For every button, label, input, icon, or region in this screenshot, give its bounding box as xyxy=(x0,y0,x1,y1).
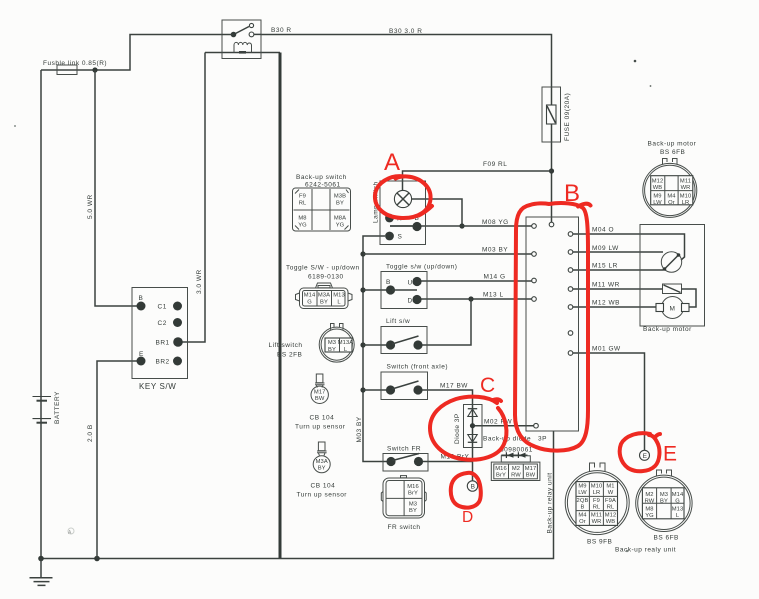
svg-text:Switch FR: Switch FR xyxy=(387,446,421,453)
svg-text:BW: BW xyxy=(526,473,536,479)
svg-text:B: B xyxy=(386,279,391,286)
wire left battery vertical xyxy=(40,70,42,559)
wire M09 LW xyxy=(573,251,663,253)
svg-text:RW: RW xyxy=(511,473,521,479)
svg-text:BY: BY xyxy=(409,508,417,514)
svg-text:B: B xyxy=(471,484,476,491)
svg-text:M1: M1 xyxy=(606,484,614,490)
svg-text:6242-5061: 6242-5061 xyxy=(305,182,341,189)
svg-text:C1: C1 xyxy=(158,304,167,311)
svg-text:LW: LW xyxy=(578,490,587,496)
lift s/w box xyxy=(381,327,427,354)
svg-text:M08 YG: M08 YG xyxy=(482,219,509,226)
svg-text:RL: RL xyxy=(593,505,601,511)
svg-text:YG: YG xyxy=(336,223,345,229)
wire bottom ground bus / unit box bottom xyxy=(41,431,554,559)
svg-text:5.0 WR: 5.0 WR xyxy=(87,194,94,219)
svg-text:M10: M10 xyxy=(680,194,692,200)
svg-text:B30 R: B30 R xyxy=(271,27,292,34)
svg-text:FUSE 09(20A): FUSE 09(20A) xyxy=(564,93,571,141)
svg-text:B30 3.0 R: B30 3.0 R xyxy=(389,28,422,35)
svg-text:M2: M2 xyxy=(512,466,520,472)
resistor xyxy=(663,284,682,294)
svg-text:Back-up motor: Back-up motor xyxy=(643,326,692,333)
svg-text:M01 GW: M01 GW xyxy=(592,346,621,353)
toggle s/w box xyxy=(381,272,427,309)
wire M15 LR xyxy=(573,269,664,271)
svg-text:LW: LW xyxy=(653,200,662,206)
svg-text:2.0 B: 2.0 B xyxy=(87,424,94,442)
svg-text:RL: RL xyxy=(299,201,307,207)
svg-text:FR switch: FR switch xyxy=(388,524,421,531)
svg-text:M17 BW: M17 BW xyxy=(440,383,468,390)
svg-text:Lift switch: Lift switch xyxy=(269,342,303,349)
svg-text:RW: RW xyxy=(645,499,655,505)
wire F09 RL to lamp xyxy=(403,171,552,191)
svg-text:BY: BY xyxy=(320,300,328,306)
label M3A BY sensor xyxy=(316,459,328,472)
svg-text:M13: M13 xyxy=(672,507,684,513)
connector lift switch BS 2FB xyxy=(319,324,354,363)
label BS6FB top cells xyxy=(652,179,692,207)
svg-text:M04 O: M04 O xyxy=(592,227,614,234)
label BS 6FB bottom cells xyxy=(645,492,684,519)
connector BS 6FB top (back-up motor) xyxy=(643,159,697,218)
svg-text:Diode 3P: Diode 3P xyxy=(454,413,461,444)
motor M xyxy=(662,297,684,319)
KEY S/W xyxy=(132,288,188,379)
svg-text:M3: M3 xyxy=(409,502,417,508)
node junction ground left xyxy=(38,556,44,562)
speck stamp xyxy=(68,528,74,536)
svg-text:M03 BY: M03 BY xyxy=(482,247,508,254)
label diode 3P cells xyxy=(495,466,536,479)
svg-text:BR2: BR2 xyxy=(156,359,170,366)
svg-text:M8: M8 xyxy=(645,507,653,513)
node junction toggle B xyxy=(360,287,365,292)
node junction F09 RL xyxy=(549,168,554,173)
connector BS 9FB xyxy=(565,463,629,535)
label BS2FB cells xyxy=(328,340,353,353)
connector toggle 6189-0130 xyxy=(296,283,353,309)
svg-text:F9A: F9A xyxy=(605,498,616,504)
sensor M17 BW (CB 104) xyxy=(311,374,328,403)
svg-text:B: B xyxy=(139,295,144,302)
svg-text:M9: M9 xyxy=(578,484,586,490)
wire lift s/w output riser xyxy=(422,299,471,345)
svg-text:Back-up switch: Back-up switch xyxy=(296,174,347,181)
svg-text:C: C xyxy=(480,374,495,397)
svg-text:E: E xyxy=(643,453,648,460)
svg-text:M17: M17 xyxy=(525,466,537,472)
wire toggle B stub xyxy=(363,289,386,291)
svg-text:M14: M14 xyxy=(672,492,684,498)
svg-text:S: S xyxy=(398,234,403,241)
svg-text:A: A xyxy=(68,530,72,536)
wire 3.0 WR to KEY S/W BR1 xyxy=(182,53,205,343)
svg-text:BR1: BR1 xyxy=(156,340,170,347)
switch FR box xyxy=(383,454,428,472)
svg-text:CB 104: CB 104 xyxy=(311,483,336,490)
label toggle connector cells xyxy=(304,293,345,306)
svg-text:M03 BY: M03 BY xyxy=(356,416,363,442)
label M17 BW sensor xyxy=(314,390,326,403)
label BS 9FB cells xyxy=(577,484,617,526)
svg-text:LR: LR xyxy=(593,490,601,496)
svg-text:BW: BW xyxy=(315,396,325,402)
wire thick main return xyxy=(279,53,282,559)
svg-text:BY: BY xyxy=(328,347,336,353)
svg-text:M13 L: M13 L xyxy=(483,292,504,299)
wire M17 BW to diode xyxy=(422,390,473,405)
connector BS 6FB bottom xyxy=(636,470,692,532)
red annotation D loop xyxy=(451,473,481,508)
svg-text:A: A xyxy=(384,149,400,176)
svg-text:Or: Or xyxy=(668,200,675,206)
svg-text:Fusble link 0.85(R): Fusble link 0.85(R) xyxy=(43,60,107,67)
svg-text:LR: LR xyxy=(682,200,690,206)
svg-text:Or: Or xyxy=(579,519,586,525)
connector FR switch xyxy=(381,476,426,518)
svg-text:L: L xyxy=(337,300,341,306)
fusible link FL xyxy=(57,65,77,75)
svg-text:M3: M3 xyxy=(328,340,336,346)
svg-text:M17: M17 xyxy=(314,390,326,396)
svg-text:M3B: M3B xyxy=(334,194,346,200)
svg-text:Toggle s/w (up/down): Toggle s/w (up/down) xyxy=(386,264,457,271)
wire M14 G xyxy=(421,280,532,283)
svg-text:M14 G: M14 G xyxy=(484,274,506,281)
svg-text:Toggle S/W - up/down: Toggle S/W - up/down xyxy=(286,265,360,272)
svg-text:B: B xyxy=(581,505,585,511)
svg-text:M3: M3 xyxy=(660,492,668,498)
svg-text:E: E xyxy=(663,443,677,466)
connector back-up switch 6242-5061 xyxy=(293,188,351,231)
svg-text:YG: YG xyxy=(298,223,307,229)
svg-text:M2: M2 xyxy=(645,492,653,498)
svg-text:KEY S/W: KEY S/W xyxy=(139,382,176,391)
svg-text:BrY: BrY xyxy=(408,491,418,497)
svg-text:M9: M9 xyxy=(653,194,661,200)
svg-text:Switch (front axle): Switch (front axle) xyxy=(387,364,449,371)
wire M16 BrY xyxy=(423,461,473,463)
svg-text:M09 LW: M09 LW xyxy=(592,245,619,252)
svg-text:RL: RL xyxy=(607,505,615,511)
svg-text:BY: BY xyxy=(318,466,326,472)
svg-text:M16: M16 xyxy=(407,484,419,490)
svg-text:3.0 WR: 3.0 WR xyxy=(196,269,203,294)
svg-text:BS 6FB: BS 6FB xyxy=(654,535,679,542)
red annotation B loop xyxy=(515,203,591,451)
wire front axle stub xyxy=(363,389,386,391)
speck 3 xyxy=(14,125,16,127)
svg-text:BS 2FB: BS 2FB xyxy=(277,352,302,359)
svg-text:WR: WR xyxy=(592,519,602,525)
node junction lift s/w xyxy=(360,342,365,347)
svg-text:M8: M8 xyxy=(298,216,306,222)
svg-text:BS 6FB: BS 6FB xyxy=(660,149,685,156)
wire M01 GW to E xyxy=(573,353,645,450)
speck 4 xyxy=(626,550,628,552)
speck 2 xyxy=(650,85,652,87)
svg-text:YG: YG xyxy=(645,513,654,519)
svg-text:BY: BY xyxy=(336,201,344,207)
sensor M3A BY (CB 104) xyxy=(313,442,330,473)
svg-text:F9: F9 xyxy=(593,498,600,504)
red annotation C loop xyxy=(430,397,506,460)
svg-text:BATTERY: BATTERY xyxy=(54,391,61,424)
node junction 2.0B at bottom xyxy=(94,556,100,562)
svg-text:W: W xyxy=(608,490,614,496)
svg-text:M3A: M3A xyxy=(318,293,330,299)
wire lift s/w stub xyxy=(363,344,386,346)
svg-text:F9: F9 xyxy=(299,194,306,200)
wire diode to B terminal xyxy=(472,448,474,481)
svg-text:D: D xyxy=(462,509,473,526)
node junction fusible-link / 5.0WR xyxy=(92,67,97,72)
wire M02 RW from diode junction xyxy=(473,425,534,427)
battery xyxy=(33,397,52,423)
svg-text:Turn up sensor: Turn up sensor xyxy=(297,492,348,499)
svg-text:M02 RW: M02 RW xyxy=(484,419,513,426)
svg-text:M12 WB: M12 WB xyxy=(592,300,620,307)
node junction lamp/M08 xyxy=(459,223,464,228)
svg-text:M11: M11 xyxy=(680,179,691,185)
svg-text:Lift s/w: Lift s/w xyxy=(386,318,410,325)
svg-text:M3A: M3A xyxy=(316,459,328,465)
label FR switch cells xyxy=(407,484,419,514)
node B terminal circle xyxy=(467,481,477,491)
svg-text:M14: M14 xyxy=(304,293,316,299)
speck 1 xyxy=(634,60,637,63)
svg-text:WB: WB xyxy=(606,519,616,525)
label lamp pins H B S xyxy=(397,215,419,241)
wire M08 YG xyxy=(390,225,532,227)
svg-text:E: E xyxy=(139,351,144,358)
red annotation E loop xyxy=(620,433,660,471)
svg-text:C2: C2 xyxy=(158,320,167,327)
label key sw pins xyxy=(139,295,170,366)
red annotation A loop xyxy=(375,176,432,218)
node junction M13/lift xyxy=(468,296,473,301)
wire M12 WB xyxy=(573,306,656,308)
svg-text:M: M xyxy=(670,305,676,312)
ground xyxy=(30,559,53,586)
svg-text:U: U xyxy=(408,280,413,287)
wire B30 R from relay to fuse xyxy=(261,35,552,223)
wire lamp S to vertical bus xyxy=(363,236,387,462)
svg-text:WR: WR xyxy=(681,185,691,191)
svg-text:Back-up motor: Back-up motor xyxy=(648,141,697,148)
wire relay coil bottom xyxy=(205,52,280,54)
wire M13 L xyxy=(421,298,532,300)
svg-text:M10: M10 xyxy=(591,484,603,490)
lamp switch box xyxy=(380,181,426,245)
svg-text:M13A: M13A xyxy=(338,340,354,346)
svg-text:Back-up realy unit: Back-up realy unit xyxy=(615,547,676,554)
svg-text:Back-up relay unit: Back-up relay unit xyxy=(547,472,554,533)
svg-text:M4: M4 xyxy=(578,513,587,519)
connector back-up diode 3P xyxy=(491,452,540,480)
label back-up switch cells xyxy=(298,194,346,229)
svg-text:G: G xyxy=(307,300,312,306)
svg-text:CB 104: CB 104 xyxy=(310,415,335,422)
relay K1 xyxy=(222,20,261,59)
wire M04 O xyxy=(573,234,685,260)
svg-text:M12: M12 xyxy=(652,179,664,185)
svg-text:M12: M12 xyxy=(605,513,617,519)
svg-text:60980061: 60980061 xyxy=(500,447,533,454)
node junction switch front axle xyxy=(360,387,365,392)
wire M03 BY xyxy=(363,253,532,255)
fuse F09 xyxy=(542,87,561,142)
svg-text:M11 WR: M11 WR xyxy=(592,282,620,289)
wire battery feed to relay (through fusible link) xyxy=(41,35,222,71)
node junction M03 BY xyxy=(360,251,365,256)
wire 2.0 B from KEY S/W E xyxy=(97,361,137,559)
back-up motor box xyxy=(640,225,705,327)
svg-text:M11: M11 xyxy=(591,513,602,519)
label toggle pins xyxy=(386,279,413,305)
svg-text:WB: WB xyxy=(653,185,663,191)
centrifugal switch xyxy=(661,252,681,272)
wire M11 WR xyxy=(573,288,663,290)
svg-text:G: G xyxy=(675,499,680,505)
back-up relay unit box xyxy=(526,217,579,431)
svg-text:BrY: BrY xyxy=(496,473,506,479)
svg-text:2QB: 2QB xyxy=(577,498,589,504)
svg-text:Turn up sensor: Turn up sensor xyxy=(295,424,346,431)
switch (front axle) box xyxy=(381,372,428,400)
diode D1 D2 box xyxy=(464,405,483,448)
svg-text:6189-0130: 6189-0130 xyxy=(308,274,344,281)
svg-text:M4: M4 xyxy=(667,194,676,200)
svg-text:M16: M16 xyxy=(495,466,507,472)
svg-text:D: D xyxy=(408,298,413,305)
svg-text:M15 LR: M15 LR xyxy=(592,263,618,270)
wire lamp right to M08 YG xyxy=(412,199,463,226)
svg-text:BY: BY xyxy=(660,499,668,505)
svg-text:M13: M13 xyxy=(333,293,345,299)
node E terminal circle xyxy=(640,450,650,460)
svg-text:BS 9FB: BS 9FB xyxy=(587,539,612,546)
svg-text:F09 RL: F09 RL xyxy=(483,161,507,168)
svg-text:Back-up diode 3P: Back-up diode 3P xyxy=(483,436,547,443)
wire 5.0 WR to KEY S/W B xyxy=(95,70,137,306)
svg-text:M8A: M8A xyxy=(334,216,346,222)
